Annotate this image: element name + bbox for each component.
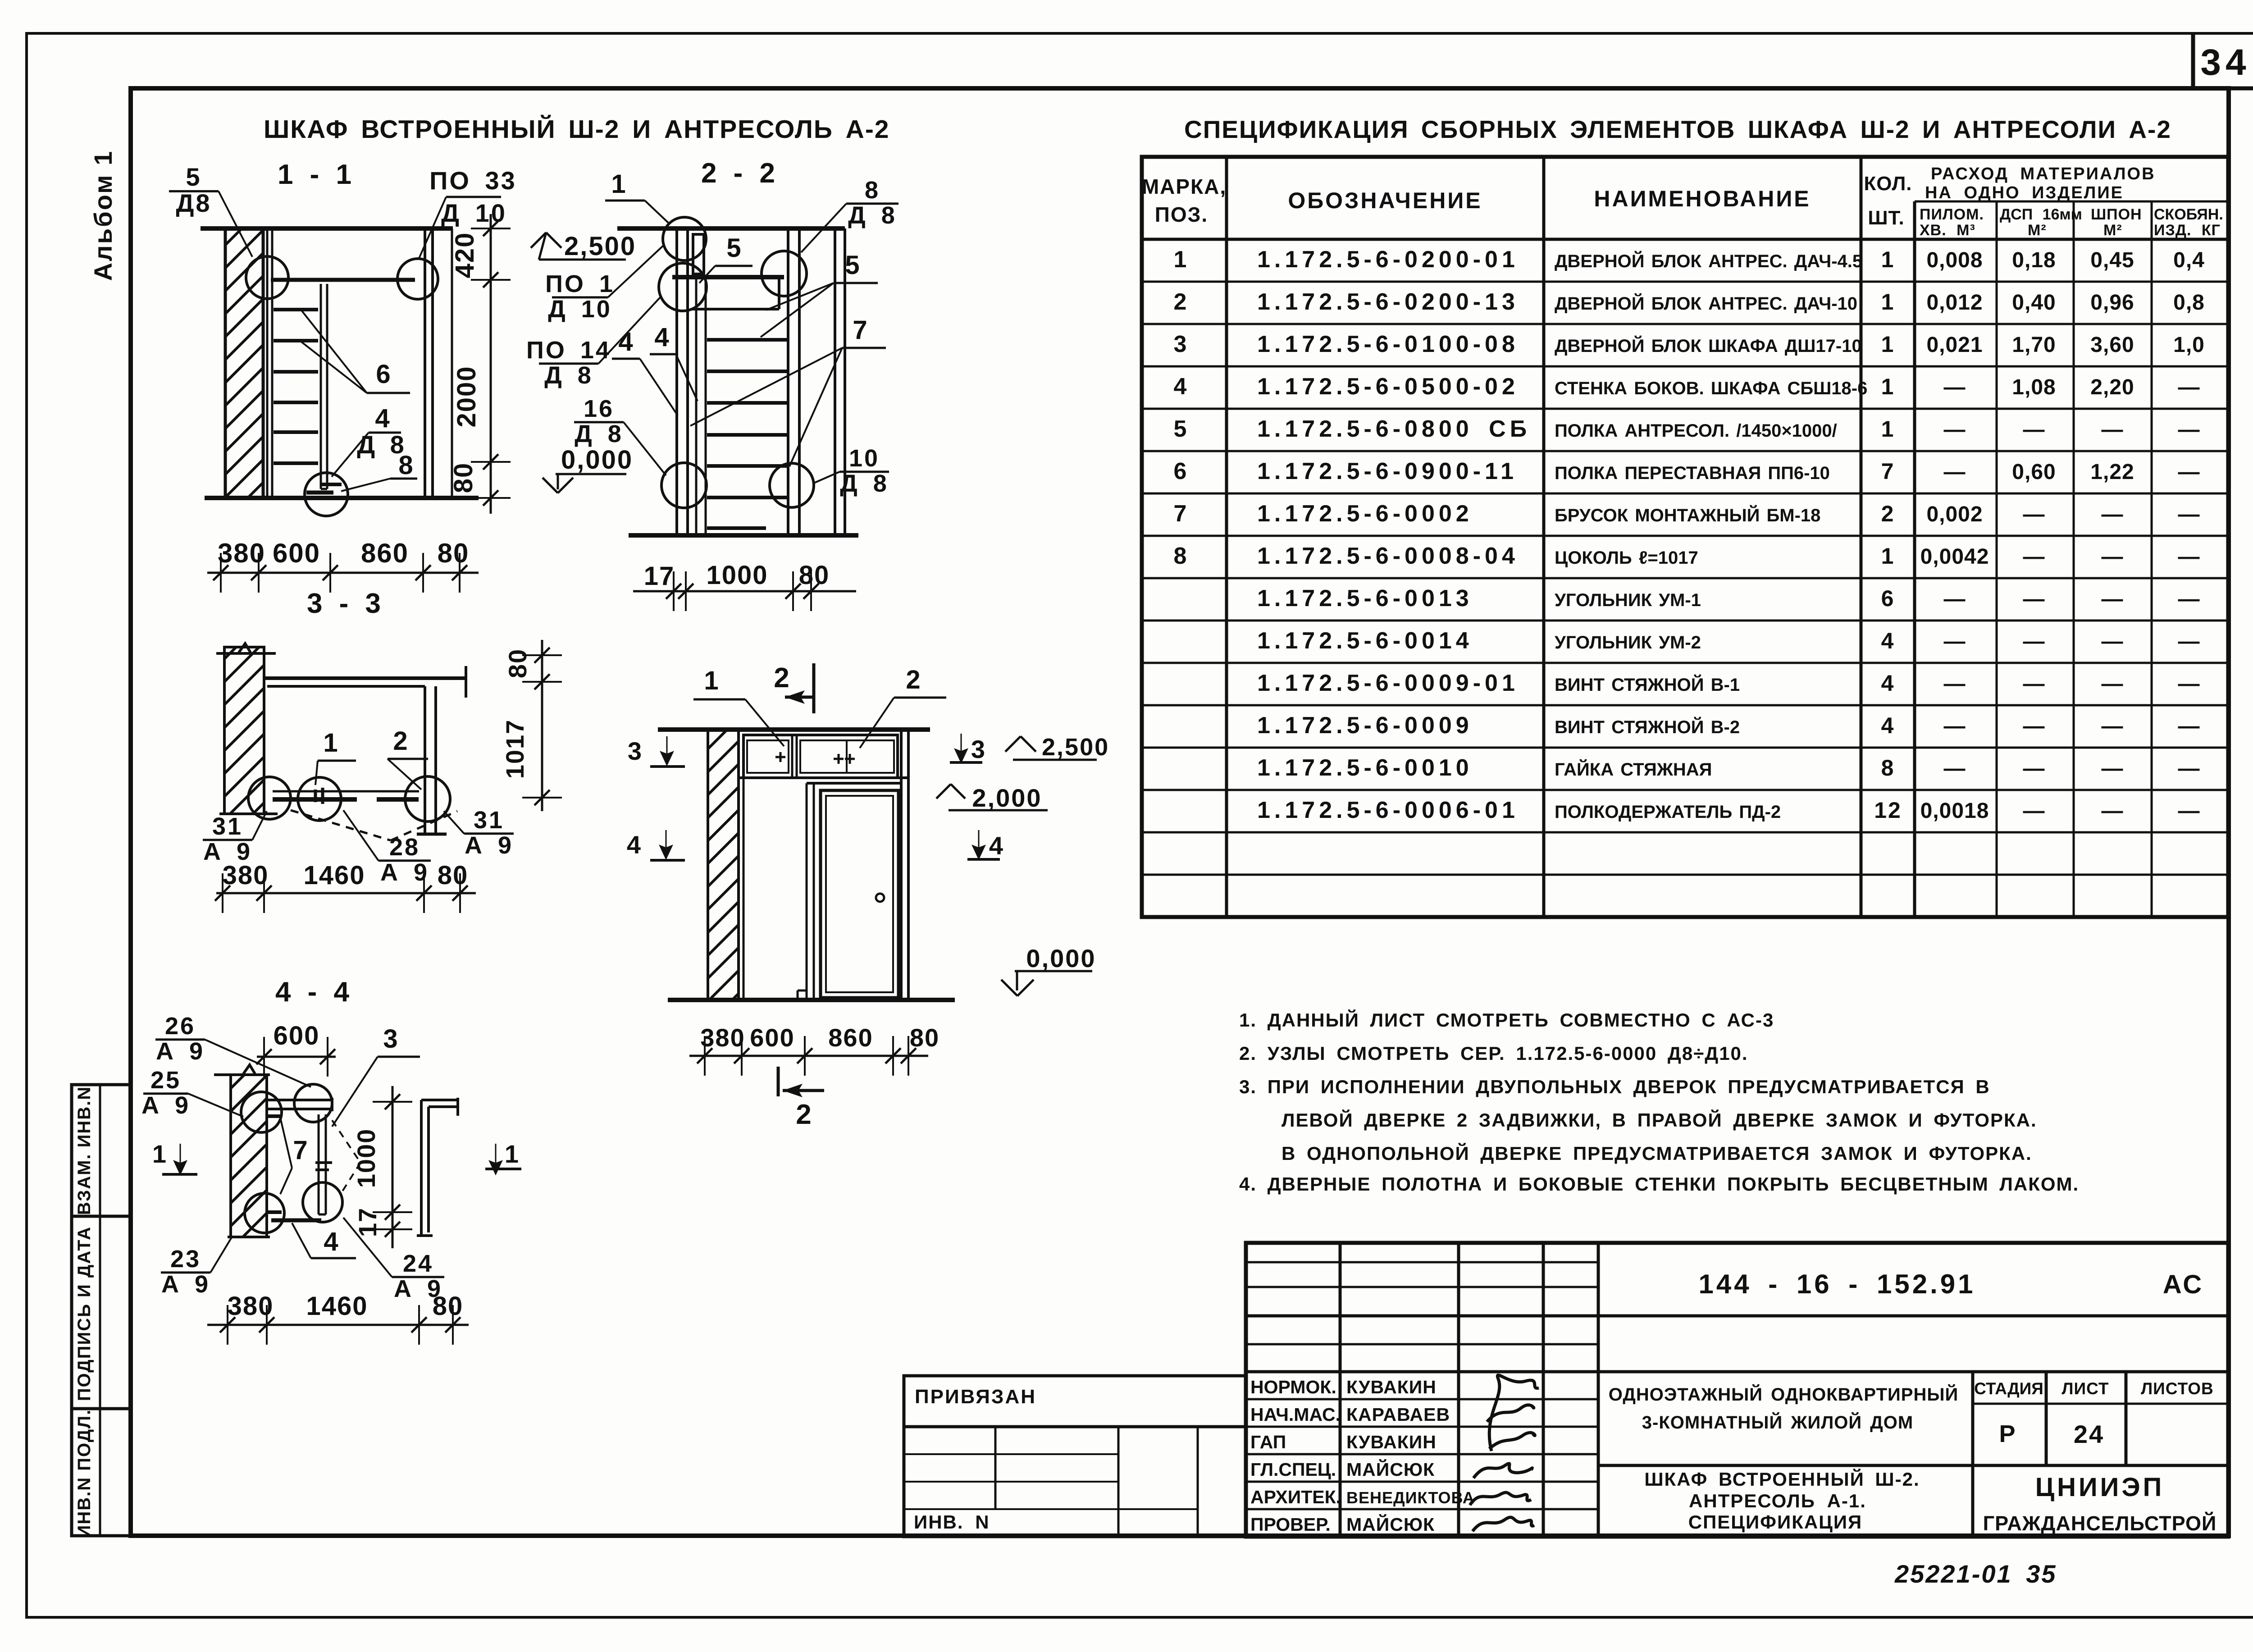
svg-text:ИНВ. N: ИНВ. N — [914, 1511, 990, 1533]
svg-text:СТЕНКА БОКОВ. ШКАФА СБШ18-6: СТЕНКА БОКОВ. ШКАФА СБШ18-6 — [1555, 379, 1867, 398]
elevation door panel — [826, 796, 893, 992]
svg-text:7: 7 — [1881, 459, 1895, 484]
svg-text:144 - 16 - 152.91: 144 - 16 - 152.91 — [1698, 1269, 1975, 1299]
svg-text:ЛИСТОВ: ЛИСТОВ — [2141, 1379, 2214, 1398]
svg-text:10: 10 — [849, 445, 880, 472]
svg-text:ПО 33: ПО 33 — [429, 166, 517, 195]
svg-text:—: — — [2023, 757, 2045, 780]
3-3 top shelf double line — [265, 676, 467, 680]
svg-text:—: — — [1944, 757, 1966, 780]
svg-text:2000: 2000 — [452, 365, 481, 427]
svg-text:8: 8 — [865, 177, 880, 204]
svg-text:ВИНТ СТЯЖНОЙ В-1: ВИНТ СТЯЖНОЙ В-1 — [1555, 674, 1740, 695]
svg-text:М²: М² — [2103, 222, 2122, 239]
svg-text:80: 80 — [449, 462, 478, 493]
4-4 bottom dimension — [207, 1324, 469, 1326]
4-4 break marks — [315, 1161, 332, 1164]
1-1 detail circle top left — [246, 256, 288, 299]
3-3 circle right — [405, 776, 450, 821]
svg-text:0,008: 0,008 — [1926, 248, 1983, 272]
svg-text:1.172.5-6-0014: 1.172.5-6-0014 — [1257, 628, 1473, 654]
svg-text:16: 16 — [584, 395, 614, 422]
svg-text:—: — — [2178, 545, 2200, 569]
stadiya list listov columns — [1971, 1372, 1975, 1537]
svg-text:—: — — [2178, 418, 2200, 442]
svg-text:80: 80 — [799, 561, 830, 590]
svg-text:МАРКА,: МАРКА, — [1142, 175, 1227, 198]
svg-text:А 9: А 9 — [161, 1271, 210, 1298]
1-1 detail circle top right — [397, 259, 438, 299]
svg-text:КУВАКИН: КУВАКИН — [1346, 1377, 1437, 1397]
svg-text:А 9: А 9 — [465, 832, 513, 859]
svg-text:1.172.5-6-0010: 1.172.5-6-0010 — [1257, 755, 1473, 781]
svg-text:5: 5 — [186, 163, 201, 191]
section mark 3 right — [955, 734, 967, 762]
section mark 2 top — [812, 663, 816, 713]
svg-text:—: — — [2102, 587, 2124, 611]
svg-text:5: 5 — [726, 233, 742, 263]
svg-text:1,22: 1,22 — [2090, 460, 2134, 484]
svg-text:1: 1 — [1881, 332, 1895, 357]
svg-text:7: 7 — [1174, 501, 1188, 527]
svg-text:1.172.5-6-0002: 1.172.5-6-0002 — [1257, 501, 1473, 527]
svg-text:Д 8: Д 8 — [840, 470, 889, 497]
2-2 circle bottom right — [770, 463, 814, 507]
svg-text:—: — — [2102, 630, 2124, 653]
3-3 hidden dashed lines — [291, 810, 391, 840]
svg-text:ЛИСТ: ЛИСТ — [2062, 1379, 2109, 1398]
svg-text:1000: 1000 — [352, 1128, 380, 1188]
4-4 circle bottom right — [303, 1182, 342, 1222]
svg-text:ШКАФ ВСТРОЕННЫЙ Ш-2.: ШКАФ ВСТРОЕННЫЙ Ш-2. — [1644, 1468, 1920, 1490]
svg-text:4: 4 — [1174, 374, 1188, 400]
svg-text:5: 5 — [1174, 416, 1188, 442]
svg-text:СПЕЦИФИКАЦИЯ: СПЕЦИФИКАЦИЯ — [1688, 1511, 1862, 1533]
svg-text:Д8: Д8 — [176, 189, 211, 217]
antresol door divider — [791, 735, 794, 778]
4-4 side panel L profile — [420, 1100, 423, 1236]
svg-text:ШТ.: ШТ. — [1868, 207, 1904, 229]
svg-text:3 - 3: 3 - 3 — [307, 588, 383, 619]
4-4 wall hatched — [231, 1075, 267, 1237]
svg-text:2: 2 — [796, 1099, 812, 1130]
svg-text:БРУСОК МОНТАЖНЫЙ БМ-18: БРУСОК МОНТАЖНЫЙ БМ-18 — [1555, 505, 1820, 525]
svg-text:0,8: 0,8 — [2173, 291, 2205, 315]
svg-text:0,021: 0,021 — [1926, 333, 1983, 357]
level mark 2500 elevation — [1005, 736, 1021, 752]
svg-text:0,0018: 0,0018 — [1920, 799, 1989, 823]
svg-text:1.172.5-6-0008-04: 1.172.5-6-0008-04 — [1257, 543, 1519, 569]
2-2 floor line — [629, 533, 858, 538]
1-1 shelves pos6 — [274, 308, 318, 311]
svg-text:0,000: 0,000 — [561, 445, 633, 475]
svg-text:0,000: 0,000 — [1026, 944, 1096, 972]
svg-text:АС: АС — [2163, 1270, 2203, 1299]
svg-text:8: 8 — [1174, 543, 1188, 569]
svg-text:1.172.5-6-0009-01: 1.172.5-6-0009-01 — [1257, 670, 1519, 696]
svg-text:—: — — [2023, 630, 2045, 653]
svg-text:ОБОЗНАЧЕНИЕ: ОБОЗНАЧЕНИЕ — [1288, 188, 1482, 213]
3-3 wall bottom cap — [219, 812, 278, 815]
svg-text:4: 4 — [324, 1227, 339, 1256]
svg-text:—: — — [2102, 545, 2124, 569]
svg-text:4: 4 — [1881, 713, 1895, 738]
3-3 bottom dimension — [216, 892, 476, 894]
page number box 34 — [2191, 33, 2195, 88]
4-4 dim 600 — [257, 1056, 336, 1058]
svg-text:31: 31 — [212, 813, 243, 840]
svg-text:ПРИВЯЗАН: ПРИВЯЗАН — [915, 1386, 1036, 1408]
svg-text:8: 8 — [398, 451, 414, 480]
2-2 shelves — [707, 338, 787, 342]
1-1 side panel pos4 — [320, 284, 322, 489]
3-3 wall hatched — [224, 647, 264, 814]
svg-text:0,96: 0,96 — [2090, 291, 2134, 315]
svg-text:—: — — [2023, 502, 2045, 526]
signature squiggles — [1470, 1375, 1539, 1531]
2-2 circle left second — [659, 263, 707, 311]
svg-text:7: 7 — [293, 1136, 309, 1165]
svg-text:2,500: 2,500 — [564, 232, 636, 261]
svg-text:4 - 4: 4 - 4 — [275, 977, 351, 1008]
svg-text:2: 2 — [906, 665, 921, 694]
svg-text:ДВЕРНОЙ БЛОК ШКАФА ДШ17-10: ДВЕРНОЙ БЛОК ШКАФА ДШ17-10 — [1555, 335, 1862, 356]
elevation wall hatched — [708, 730, 739, 1000]
svg-text:ИЗД. КГ: ИЗД. КГ — [2154, 222, 2221, 239]
elevation door top line — [807, 782, 901, 785]
spec table column lines — [1225, 157, 1228, 917]
svg-text:380: 380 — [218, 538, 265, 568]
svg-text:1 - 1: 1 - 1 — [278, 159, 353, 190]
svg-text:НАЧ.МАС.: НАЧ.МАС. — [1250, 1404, 1341, 1425]
svg-text:380: 380 — [700, 1023, 745, 1052]
svg-text:ВИНТ СТЯЖНОЙ В-2: ВИНТ СТЯЖНОЙ В-2 — [1555, 716, 1740, 737]
privyazan box — [904, 1376, 1246, 1427]
title block frame — [1246, 1243, 2228, 1537]
svg-text:1.172.5-6-0800 СБ: 1.172.5-6-0800 СБ — [1257, 416, 1531, 442]
svg-text:23: 23 — [170, 1246, 201, 1273]
svg-text:ГАЙКА СТЯЖНАЯ: ГАЙКА СТЯЖНАЯ — [1555, 759, 1712, 780]
2-2 ceiling line — [617, 226, 845, 231]
svg-text:3-КОМНАТНЫЙ ЖИЛОЙ ДОМ: 3-КОМНАТНЫЙ ЖИЛОЙ ДОМ — [1642, 1412, 1913, 1433]
svg-text:6: 6 — [1881, 586, 1895, 611]
svg-text:80: 80 — [438, 861, 469, 890]
4-4 right vertical dimension — [392, 1086, 394, 1248]
svg-text:ПО 1: ПО 1 — [545, 270, 615, 297]
svg-text:ПОЛКОДЕРЖАТЕЛЬ ПД-2: ПОЛКОДЕРЖАТЕЛЬ ПД-2 — [1555, 802, 1781, 822]
1-1 detail circle bottom — [305, 473, 348, 516]
elevation door leaf — [821, 790, 898, 998]
svg-text:—: — — [1944, 672, 1966, 696]
3-3 right panel foot — [417, 833, 447, 836]
svg-text:НА ОДНО ИЗДЕЛИЕ: НА ОДНО ИЗДЕЛИЕ — [1925, 183, 2124, 202]
svg-text:2: 2 — [774, 662, 790, 694]
svg-text:17: 17 — [644, 561, 675, 591]
block podpis i data — [72, 1407, 131, 1410]
svg-text:—: — — [2102, 502, 2124, 526]
svg-text:—: — — [2178, 672, 2200, 696]
svg-text:—: — — [2178, 757, 2200, 780]
svg-text:АРХИТЕК.: АРХИТЕК. — [1250, 1487, 1341, 1507]
svg-text:ГРАЖДАНСЕЛЬСТРОЙ: ГРАЖДАНСЕЛЬСТРОЙ — [1983, 1512, 2217, 1535]
elevation door jamb left — [806, 783, 808, 1000]
svg-text:ПОЛКА ПЕРЕСТАВНАЯ ПП6-10: ПОЛКА ПЕРЕСТАВНАЯ ПП6-10 — [1555, 463, 1830, 483]
svg-text:4. ДВЕРНЫЕ ПОЛОТНА И БОКО: 4. ДВЕРНЫЕ ПОЛОТНА И БОКОВЫЕ СТЕНКИ ПОКР… — [1239, 1173, 2079, 1195]
svg-text:600: 600 — [274, 1021, 320, 1050]
svg-text:ВЕНЕДИКТОВА: ВЕНЕДИКТОВА — [1346, 1488, 1475, 1507]
svg-text:380: 380 — [223, 861, 269, 890]
2-2 inner panel — [695, 278, 698, 535]
svg-text:2. УЗЛЫ СМОТРЕТЬ СЕР. 1.17: 2. УЗЛЫ СМОТРЕТЬ СЕР. 1.172.5-6-0000 Д8÷… — [1239, 1043, 1748, 1064]
svg-text:ЦОКОЛЬ ℓ=1017: ЦОКОЛЬ ℓ=1017 — [1555, 548, 1698, 568]
svg-text:СПЕЦИФИКАЦИЯ СБОРНЫХ ЭЛЕМЕНТ: СПЕЦИФИКАЦИЯ СБОРНЫХ ЭЛЕМЕНТОВ ШКАФА Ш-2… — [1184, 115, 2171, 143]
svg-text:80: 80 — [503, 648, 532, 678]
section mark 2 bottom — [777, 1067, 780, 1096]
svg-text:1,08: 1,08 — [2012, 375, 2056, 399]
svg-text:420: 420 — [450, 232, 479, 278]
svg-text:3. ПРИ ИСПОЛНЕНИИ ДВУПОЛЬН: 3. ПРИ ИСПОЛНЕНИИ ДВУПОЛЬНЫХ ДВЕРОК ПРЕД… — [1239, 1076, 1990, 1097]
svg-text:1: 1 — [1881, 289, 1895, 315]
svg-text:—: — — [1944, 630, 1966, 653]
svg-text:ГЛ.СПЕЦ.: ГЛ.СПЕЦ. — [1250, 1459, 1336, 1480]
svg-text:В ОДНОПОЛЬНОЙ ДВЕРКЕ ПРЕДУСМ: В ОДНОПОЛЬНОЙ ДВЕРКЕ ПРЕДУСМАТРИВАЕТСЯ З… — [1282, 1142, 2032, 1164]
antresol door left inner — [747, 740, 789, 773]
svg-text:860: 860 — [361, 538, 409, 568]
section mark 1 right — [485, 1168, 521, 1170]
svg-text:1.172.5-6-0006-01: 1.172.5-6-0006-01 — [1257, 797, 1519, 823]
1-1 vertical dimension line — [490, 214, 492, 514]
svg-text:4: 4 — [627, 831, 642, 859]
elevation door knob — [876, 894, 884, 902]
svg-text:1.172.5-6-0100-08: 1.172.5-6-0100-08 — [1257, 331, 1519, 357]
svg-text:1: 1 — [1881, 247, 1895, 272]
svg-text:4: 4 — [375, 404, 391, 433]
4-4 wall top cap — [214, 1073, 270, 1076]
svg-text:1.172.5-6-0900-11: 1.172.5-6-0900-11 — [1257, 458, 1518, 484]
level mark 2000 elevation — [936, 784, 951, 799]
svg-text:—: — — [2178, 502, 2200, 526]
svg-text:1460: 1460 — [303, 861, 365, 890]
svg-text:—: — — [1944, 714, 1966, 738]
svg-text:0,40: 0,40 — [2012, 291, 2056, 315]
2-2 antresol door pos1 — [693, 234, 704, 274]
svg-text:Альбом 1: Альбом 1 — [89, 150, 117, 281]
title block divider right section — [1598, 1464, 2228, 1467]
svg-text:ЛЕВОЙ ДВЕРКЕ 2 ЗАДВИЖКИ, В: ЛЕВОЙ ДВЕРКЕ 2 ЗАДВИЖКИ, В ПРАВОЙ ДВЕРКЕ… — [1282, 1109, 2037, 1131]
svg-text:7: 7 — [853, 315, 868, 345]
svg-text:Р: Р — [1999, 1420, 2016, 1447]
svg-text:3: 3 — [628, 737, 643, 765]
svg-text:1.172.5-6-0200-01: 1.172.5-6-0200-01 — [1257, 246, 1519, 273]
svg-text:1460: 1460 — [306, 1291, 368, 1321]
svg-text:1,0: 1,0 — [2173, 333, 2205, 357]
svg-text:—: — — [2023, 587, 2045, 611]
elevation ceiling line — [658, 727, 930, 732]
svg-text:УГОЛЬНИК УМ-1: УГОЛЬНИК УМ-1 — [1555, 590, 1701, 610]
elevation right jamb — [900, 730, 903, 1000]
svg-text:24: 24 — [403, 1250, 433, 1277]
svg-text:2,000: 2,000 — [972, 784, 1042, 812]
2-2 circle top right — [762, 251, 807, 296]
svg-text:3: 3 — [1174, 331, 1188, 357]
svg-text:—: — — [2102, 757, 2124, 780]
2-2 circle top left — [663, 217, 706, 260]
svg-text:3: 3 — [971, 735, 986, 763]
elevation bottom dimension — [689, 1055, 928, 1057]
svg-text:6: 6 — [1174, 458, 1188, 484]
svg-text:0,012: 0,012 — [1926, 291, 1983, 315]
svg-text:80: 80 — [910, 1023, 940, 1052]
3-3 wall top cap — [216, 652, 276, 655]
svg-text:25221-01 35: 25221-01 35 — [1894, 1560, 2057, 1588]
1-1 wall end line — [451, 228, 453, 498]
svg-text:ХВ. М³: ХВ. М³ — [1920, 222, 1975, 239]
svg-text:АНТРЕСОЛЬ А-1.: АНТРЕСОЛЬ А-1. — [1689, 1490, 1866, 1511]
3-3 shelf front line — [273, 790, 419, 793]
svg-text:0,0042: 0,0042 — [1920, 545, 1989, 569]
svg-text:ДСП 16мм: ДСП 16мм — [2000, 206, 2082, 223]
svg-text:600: 600 — [273, 538, 320, 568]
3-3 circle left — [248, 777, 291, 819]
svg-text:—: — — [2178, 375, 2200, 399]
svg-text:1.172.5-6-0009: 1.172.5-6-0009 — [1257, 712, 1473, 739]
svg-text:2: 2 — [1174, 289, 1188, 315]
svg-text:ЦНИИЭП: ЦНИИЭП — [2035, 1473, 2165, 1502]
svg-text:—: — — [2178, 799, 2200, 823]
svg-text:31: 31 — [474, 807, 504, 834]
4-4 circle wall top — [241, 1092, 282, 1132]
svg-text:8: 8 — [1881, 755, 1895, 780]
spec table row lines — [1142, 281, 2228, 283]
svg-text:—: — — [2102, 799, 2124, 823]
2-2 bottom dimension — [633, 590, 856, 593]
svg-text:2,20: 2,20 — [2090, 375, 2134, 399]
svg-text:28: 28 — [389, 834, 420, 861]
svg-text:—: — — [2102, 672, 2124, 696]
title block left small rows — [1246, 1261, 1598, 1264]
svg-text:Д 10: Д 10 — [548, 296, 612, 323]
svg-text:ПОЛКА АНТРЕСОЛ. /1450×1000/: ПОЛКА АНТРЕСОЛ. /1450×1000/ — [1555, 421, 1837, 441]
svg-text:1: 1 — [1174, 246, 1188, 273]
1-1 bottom dimension line — [207, 572, 479, 574]
svg-text:—: — — [2023, 672, 2045, 696]
svg-text:Д 8: Д 8 — [848, 202, 897, 229]
2-2 circle bottom left — [661, 463, 707, 508]
3-3 circle middle — [298, 777, 341, 821]
4-4 top bar double line — [267, 1099, 333, 1101]
left column box — [72, 1085, 131, 1536]
4-4 door block pos3 vertical — [318, 1114, 320, 1214]
svg-text:КОЛ.: КОЛ. — [1864, 173, 1912, 195]
2-2 right side pos4 — [787, 228, 789, 535]
3-3 right panel — [424, 686, 426, 833]
svg-text:1: 1 — [152, 1140, 168, 1168]
1-1 partition pos33 — [424, 228, 426, 498]
block vzam inv N — [72, 1215, 131, 1218]
svg-text:ОДНОЭТАЖНЫЙ ОДНОКВАРТИРНЫЙ: ОДНОЭТАЖНЫЙ ОДНОКВАРТИРНЫЙ — [1609, 1384, 1959, 1405]
svg-text:860: 860 — [828, 1023, 873, 1052]
4-4 circle wall bottom — [245, 1193, 284, 1233]
svg-text:380: 380 — [228, 1291, 274, 1321]
svg-text:2 - 2: 2 - 2 — [701, 158, 777, 189]
svg-text:ДВЕРНОЙ БЛОК АНТРЕС. ДАЧ-4.5: ДВЕРНОЙ БЛОК АНТРЕС. ДАЧ-4.5 — [1555, 251, 1862, 271]
svg-text:6: 6 — [376, 360, 392, 389]
svg-text:—: — — [1944, 587, 1966, 611]
svg-text:24: 24 — [2074, 1420, 2104, 1448]
svg-text:1: 1 — [323, 728, 339, 758]
svg-text:КУВАКИН: КУВАКИН — [1346, 1432, 1437, 1452]
svg-text:—: — — [2178, 630, 2200, 653]
svg-text:—: — — [2023, 545, 2045, 569]
svg-text:1.172.5-6-0200-13: 1.172.5-6-0200-13 — [1257, 289, 1519, 315]
svg-text:МАЙСЮК: МАЙСЮК — [1346, 1514, 1435, 1535]
svg-text:1: 1 — [1881, 416, 1895, 442]
elevation antresol band — [743, 735, 898, 778]
svg-text:1. ДАННЫЙ ЛИСТ СМОТРЕТЬ С: 1. ДАННЫЙ ЛИСТ СМОТРЕТЬ СОВМЕСТНО С АС-3 — [1239, 1009, 1774, 1031]
svg-text:3,60: 3,60 — [2090, 333, 2134, 357]
elevation floor line — [668, 998, 955, 1002]
svg-text:ГАП: ГАП — [1250, 1432, 1286, 1452]
4-4 batten marks pos7 — [267, 1114, 282, 1118]
svg-text:НАИМЕНОВАНИЕ: НАИМЕНОВАНИЕ — [1594, 186, 1811, 211]
svg-text:25: 25 — [151, 1067, 181, 1094]
svg-text:НОРМОК.: НОРМОК. — [1250, 1377, 1336, 1397]
4-4 wall bottom cap — [228, 1236, 270, 1238]
svg-text:4: 4 — [654, 323, 670, 352]
svg-text:—: — — [1944, 460, 1966, 484]
svg-text:34: 34 — [2200, 42, 2250, 83]
svg-text:М²: М² — [2028, 222, 2047, 239]
svg-text:26: 26 — [165, 1013, 196, 1040]
svg-text:80: 80 — [438, 538, 470, 568]
svg-text:2: 2 — [1881, 501, 1895, 526]
svg-text:1000: 1000 — [706, 561, 768, 590]
antresol door right inner — [800, 740, 894, 773]
svg-text:600: 600 — [750, 1023, 794, 1052]
svg-text:ПОДПИСЬ И ДАТА: ПОДПИСЬ И ДАТА — [74, 1226, 94, 1401]
svg-text:А 9: А 9 — [380, 859, 429, 886]
4-4 plinth line — [271, 1218, 321, 1223]
1-1 antresol shelf — [271, 278, 415, 282]
elevation door threshold — [798, 990, 807, 992]
svg-text:4: 4 — [1881, 671, 1895, 696]
svg-text:Д 8: Д 8 — [544, 362, 593, 389]
2-2 plinth line — [707, 526, 766, 530]
section mark 4 right — [973, 830, 985, 858]
svg-text:Д 8: Д 8 — [575, 420, 623, 447]
svg-text:12: 12 — [1874, 798, 1902, 823]
1-1 floor line — [205, 496, 479, 500]
svg-text:РАСХОД МАТЕРИАЛОВ: РАСХОД МАТЕРИАЛОВ — [1931, 164, 2156, 183]
svg-text:—: — — [2023, 799, 2045, 823]
svg-text:—: — — [2178, 460, 2200, 484]
svg-text:—: — — [1944, 418, 1966, 442]
svg-text:0,002: 0,002 — [1926, 502, 1983, 526]
level mark 2500 — [539, 259, 626, 261]
svg-text:1: 1 — [505, 1140, 520, 1168]
svg-text:2,500: 2,500 — [1042, 734, 1109, 761]
title block verticals left section — [1339, 1243, 1342, 1537]
svg-text:—: — — [2178, 587, 2200, 611]
svg-text:0,18: 0,18 — [2012, 248, 2056, 272]
svg-text:0,45: 0,45 — [2090, 248, 2134, 272]
4-4 hidden dashed lines — [332, 1120, 360, 1163]
svg-text:1.172.5-6-0500-02: 1.172.5-6-0500-02 — [1257, 374, 1519, 400]
svg-text:4: 4 — [1881, 628, 1895, 653]
svg-text:17: 17 — [353, 1207, 382, 1237]
antresol handles — [775, 756, 785, 758]
svg-text:ПРОВЕР.: ПРОВЕР. — [1250, 1514, 1331, 1535]
